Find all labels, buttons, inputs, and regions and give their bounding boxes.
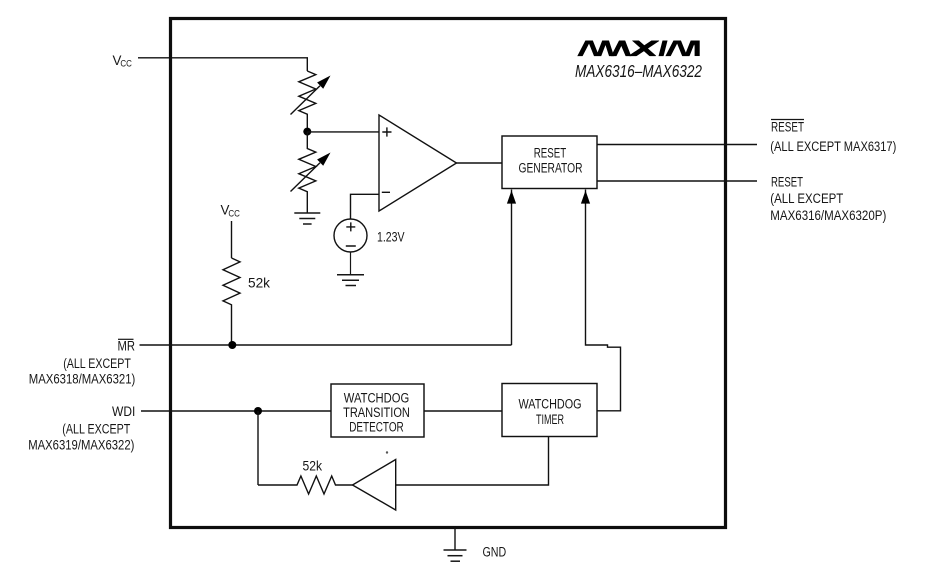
- variable resistor R2 (bottom of divider): [291, 132, 331, 213]
- reset generator box U3: [502, 136, 597, 189]
- GND pin: [444, 527, 507, 561]
- ground (reference): [337, 252, 364, 286]
- buffer U2: [353, 460, 396, 511]
- wire WDI input: [141, 410, 331, 412]
- svg-text:(ALL EXCEPT: (ALL EXCEPT: [62, 422, 130, 437]
- node MR: [228, 341, 236, 349]
- reference source 1.23V: [334, 219, 405, 252]
- node A (divider tap): [303, 128, 311, 136]
- svg-text:MAX6319/MAX6322): MAX6319/MAX6322): [28, 438, 134, 453]
- Maxim logo: [578, 38, 700, 60]
- wire transition detector to watchdog timer: [424, 410, 502, 412]
- wire RESET output: [597, 180, 757, 182]
- svg-text:52k: 52k: [303, 459, 323, 474]
- ground (divider): [294, 213, 320, 224]
- svg-text:MAX6316/MAX6320P): MAX6316/MAX6320P): [770, 208, 886, 223]
- resistor R4 52k (feedback): [258, 459, 353, 495]
- svg-text:TRANSITION: TRANSITION: [343, 405, 410, 420]
- svg-text:WATCHDOG: WATCHDOG: [519, 397, 582, 412]
- VCC pullup label: [221, 203, 241, 219]
- svg-text:CC: CC: [228, 208, 240, 218]
- svg-text:DETECTOR: DETECTOR: [349, 420, 404, 435]
- wire divider tap to comparator + input: [307, 131, 379, 133]
- RESET-bar output label: [770, 120, 896, 154]
- watchdog timer box: [502, 384, 597, 437]
- RESET output label: [770, 175, 886, 224]
- comparator U1: [379, 115, 457, 211]
- MR input label: [29, 339, 136, 387]
- wire VCC to 52k resistor: [231, 221, 233, 258]
- WDI input label: [28, 404, 135, 453]
- wire feedback to WDI node: [257, 411, 259, 485]
- svg-text:(ALL EXCEPT MAX6317): (ALL EXCEPT MAX6317): [770, 139, 896, 154]
- svg-text:GENERATOR: GENERATOR: [519, 160, 583, 175]
- svg-text:MR: MR: [118, 339, 136, 354]
- wire VCC to divider: [138, 58, 307, 71]
- speck artifact: [386, 451, 388, 453]
- VCC input label: [113, 53, 133, 69]
- variable resistor R1 (top of divider): [291, 71, 331, 131]
- svg-text:MAX6316–MAX6322: MAX6316–MAX6322: [575, 61, 702, 81]
- wire MR input: [140, 344, 512, 346]
- watchdog transition detector box: [331, 384, 424, 437]
- svg-text:RESET: RESET: [771, 175, 803, 190]
- wire comparator output to reset generator: [457, 162, 503, 164]
- node WDI: [254, 407, 262, 415]
- svg-text:TIMER: TIMER: [536, 412, 564, 427]
- svg-text:RESET: RESET: [534, 146, 567, 161]
- svg-text:WATCHDOG: WATCHDOG: [344, 391, 409, 406]
- wire watchdog timer to buffer: [396, 437, 549, 486]
- svg-text:1.23V: 1.23V: [377, 230, 405, 245]
- wire RESET-bar output: [597, 144, 757, 146]
- svg-text:RESET: RESET: [771, 120, 804, 135]
- svg-text:MAX6318/MAX6321): MAX6318/MAX6321): [29, 372, 136, 387]
- svg-text:52k: 52k: [248, 276, 270, 291]
- svg-text:(ALL EXCEPT: (ALL EXCEPT: [63, 356, 131, 371]
- wire comparator minus input to reference: [351, 194, 380, 219]
- chip outline: [171, 19, 726, 528]
- svg-text:GND: GND: [483, 545, 507, 560]
- resistor R3 52k (MR pullup): [223, 258, 270, 345]
- svg-text:(ALL EXCEPT: (ALL EXCEPT: [770, 191, 843, 206]
- wire MR to reset generator with arrow: [507, 190, 516, 346]
- wire watchdog timer to reset generator with arrow: [581, 190, 621, 411]
- svg-text:CC: CC: [120, 59, 132, 69]
- svg-text:WDI: WDI: [112, 404, 135, 419]
